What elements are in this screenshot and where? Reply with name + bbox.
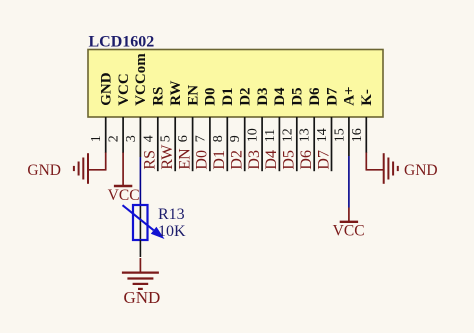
- svg-text:6: 6: [176, 135, 191, 142]
- svg-text:D2: D2: [238, 87, 254, 105]
- svg-text:VCC: VCC: [333, 223, 365, 240]
- svg-text:8: 8: [211, 135, 226, 142]
- svg-text:2: 2: [107, 135, 122, 142]
- svg-text:D2: D2: [229, 150, 246, 170]
- svg-text:D4: D4: [272, 87, 288, 106]
- svg-text:D0: D0: [203, 87, 219, 105]
- svg-text:RW: RW: [159, 144, 176, 170]
- svg-text:13: 13: [298, 128, 313, 142]
- svg-text:12: 12: [280, 128, 295, 142]
- svg-text:RW: RW: [168, 80, 184, 105]
- svg-text:D5: D5: [281, 150, 298, 170]
- svg-text:K-: K-: [359, 89, 375, 106]
- svg-text:D5: D5: [290, 87, 306, 105]
- svg-text:LCD1602: LCD1602: [89, 34, 155, 51]
- svg-text:VCC: VCC: [108, 187, 140, 204]
- svg-text:D3: D3: [255, 87, 271, 105]
- svg-text:D6: D6: [298, 150, 315, 170]
- svg-text:3: 3: [124, 135, 139, 142]
- svg-text:D0: D0: [194, 150, 211, 170]
- svg-text:EN: EN: [176, 148, 193, 170]
- svg-text:5: 5: [159, 135, 174, 142]
- svg-text:7: 7: [193, 135, 208, 142]
- svg-text:VCCom: VCCom: [133, 53, 149, 106]
- svg-text:RS: RS: [142, 150, 159, 170]
- svg-text:11: 11: [263, 129, 278, 142]
- svg-text:14: 14: [315, 128, 330, 142]
- svg-text:EN: EN: [185, 85, 201, 106]
- svg-text:GND: GND: [99, 72, 115, 106]
- svg-text:GND: GND: [404, 162, 438, 179]
- svg-text:D3: D3: [246, 150, 263, 170]
- svg-text:9: 9: [228, 135, 243, 142]
- svg-text:RS: RS: [151, 87, 167, 106]
- svg-text:D7: D7: [315, 150, 332, 170]
- svg-text:1: 1: [89, 135, 104, 142]
- svg-text:16: 16: [350, 128, 365, 142]
- svg-text:A+: A+: [342, 86, 358, 105]
- svg-text:GND: GND: [27, 162, 61, 179]
- svg-text:10K: 10K: [158, 223, 186, 240]
- svg-text:D7: D7: [324, 87, 340, 106]
- svg-text:D1: D1: [211, 150, 228, 170]
- svg-text:D4: D4: [263, 150, 280, 170]
- svg-text:D6: D6: [307, 87, 323, 106]
- svg-text:R13: R13: [158, 206, 185, 223]
- svg-text:15: 15: [332, 128, 347, 142]
- svg-text:VCC: VCC: [116, 73, 132, 106]
- svg-text:4: 4: [141, 135, 156, 142]
- svg-text:GND: GND: [123, 288, 160, 307]
- svg-text:D1: D1: [220, 87, 236, 105]
- svg-text:10: 10: [246, 128, 261, 142]
